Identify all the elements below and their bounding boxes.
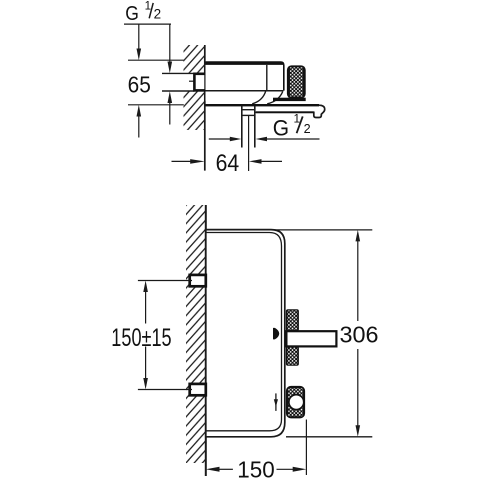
wall (top view) — [184, 45, 205, 171]
dimension 150 (bottom) — [206, 420, 307, 480]
inlet supply pipe — [162, 73, 194, 91]
outlet arrow mark — [274, 393, 278, 411]
G 1/2 leader to inlet pipe (down arrow) — [168, 24, 173, 73]
mounting union box 1 — [190, 275, 206, 286]
svg-text:1: 1 — [294, 112, 301, 126]
svg-text:G: G — [273, 115, 289, 140]
svg-text:306: 306 — [340, 321, 379, 347]
handle bar — [286, 331, 336, 346]
dimension 65 leader top arrow — [137, 24, 142, 60]
inlet union box — [194, 74, 205, 91]
dimension 306 — [269, 230, 379, 437]
extension line B — [128, 104, 184, 106]
label G 1/2 (outlet) text — [273, 112, 311, 141]
extension line A (body top) — [128, 59, 184, 61]
spout union nut and outlet pipe — [242, 106, 255, 148]
shower outlet block — [286, 386, 305, 419]
body outline (bottom view) — [206, 230, 285, 437]
svg-text:65: 65 — [128, 71, 151, 97]
dimension 65 bottom arrow — [137, 105, 142, 138]
knurled knob (top view) — [287, 65, 306, 98]
svg-text:150±15: 150±15 — [111, 324, 171, 352]
body underside curves — [252, 91, 266, 104]
mounting union box 2 — [190, 384, 206, 395]
lower knurled wheel — [286, 346, 299, 365]
bath spout (side profile) — [205, 104, 324, 118]
svg-text:150: 150 — [237, 456, 274, 480]
wall (bottom view) — [186, 205, 206, 476]
upper knurled wheel — [286, 309, 299, 331]
body (top view) — [206, 61, 306, 104]
svg-text:2: 2 — [304, 122, 311, 136]
svg-text:64: 64 — [216, 150, 240, 177]
outlet centerline extension — [248, 116, 250, 171]
svg-text:2: 2 — [154, 6, 162, 21]
label G 1/2 (outlet) leader with arrows — [209, 137, 320, 142]
dimension 150±15 — [111, 281, 192, 390]
svg-text:G: G — [125, 3, 139, 25]
temperature mark on body — [273, 328, 279, 340]
label G 1/2 (top inlet) — [124, 0, 171, 25]
G 1/2 leader to inlet pipe (up arrow) — [168, 91, 173, 124]
svg-text:1: 1 — [145, 0, 151, 12]
dimension 64 — [172, 150, 283, 177]
body bottom thick band — [273, 98, 306, 101]
